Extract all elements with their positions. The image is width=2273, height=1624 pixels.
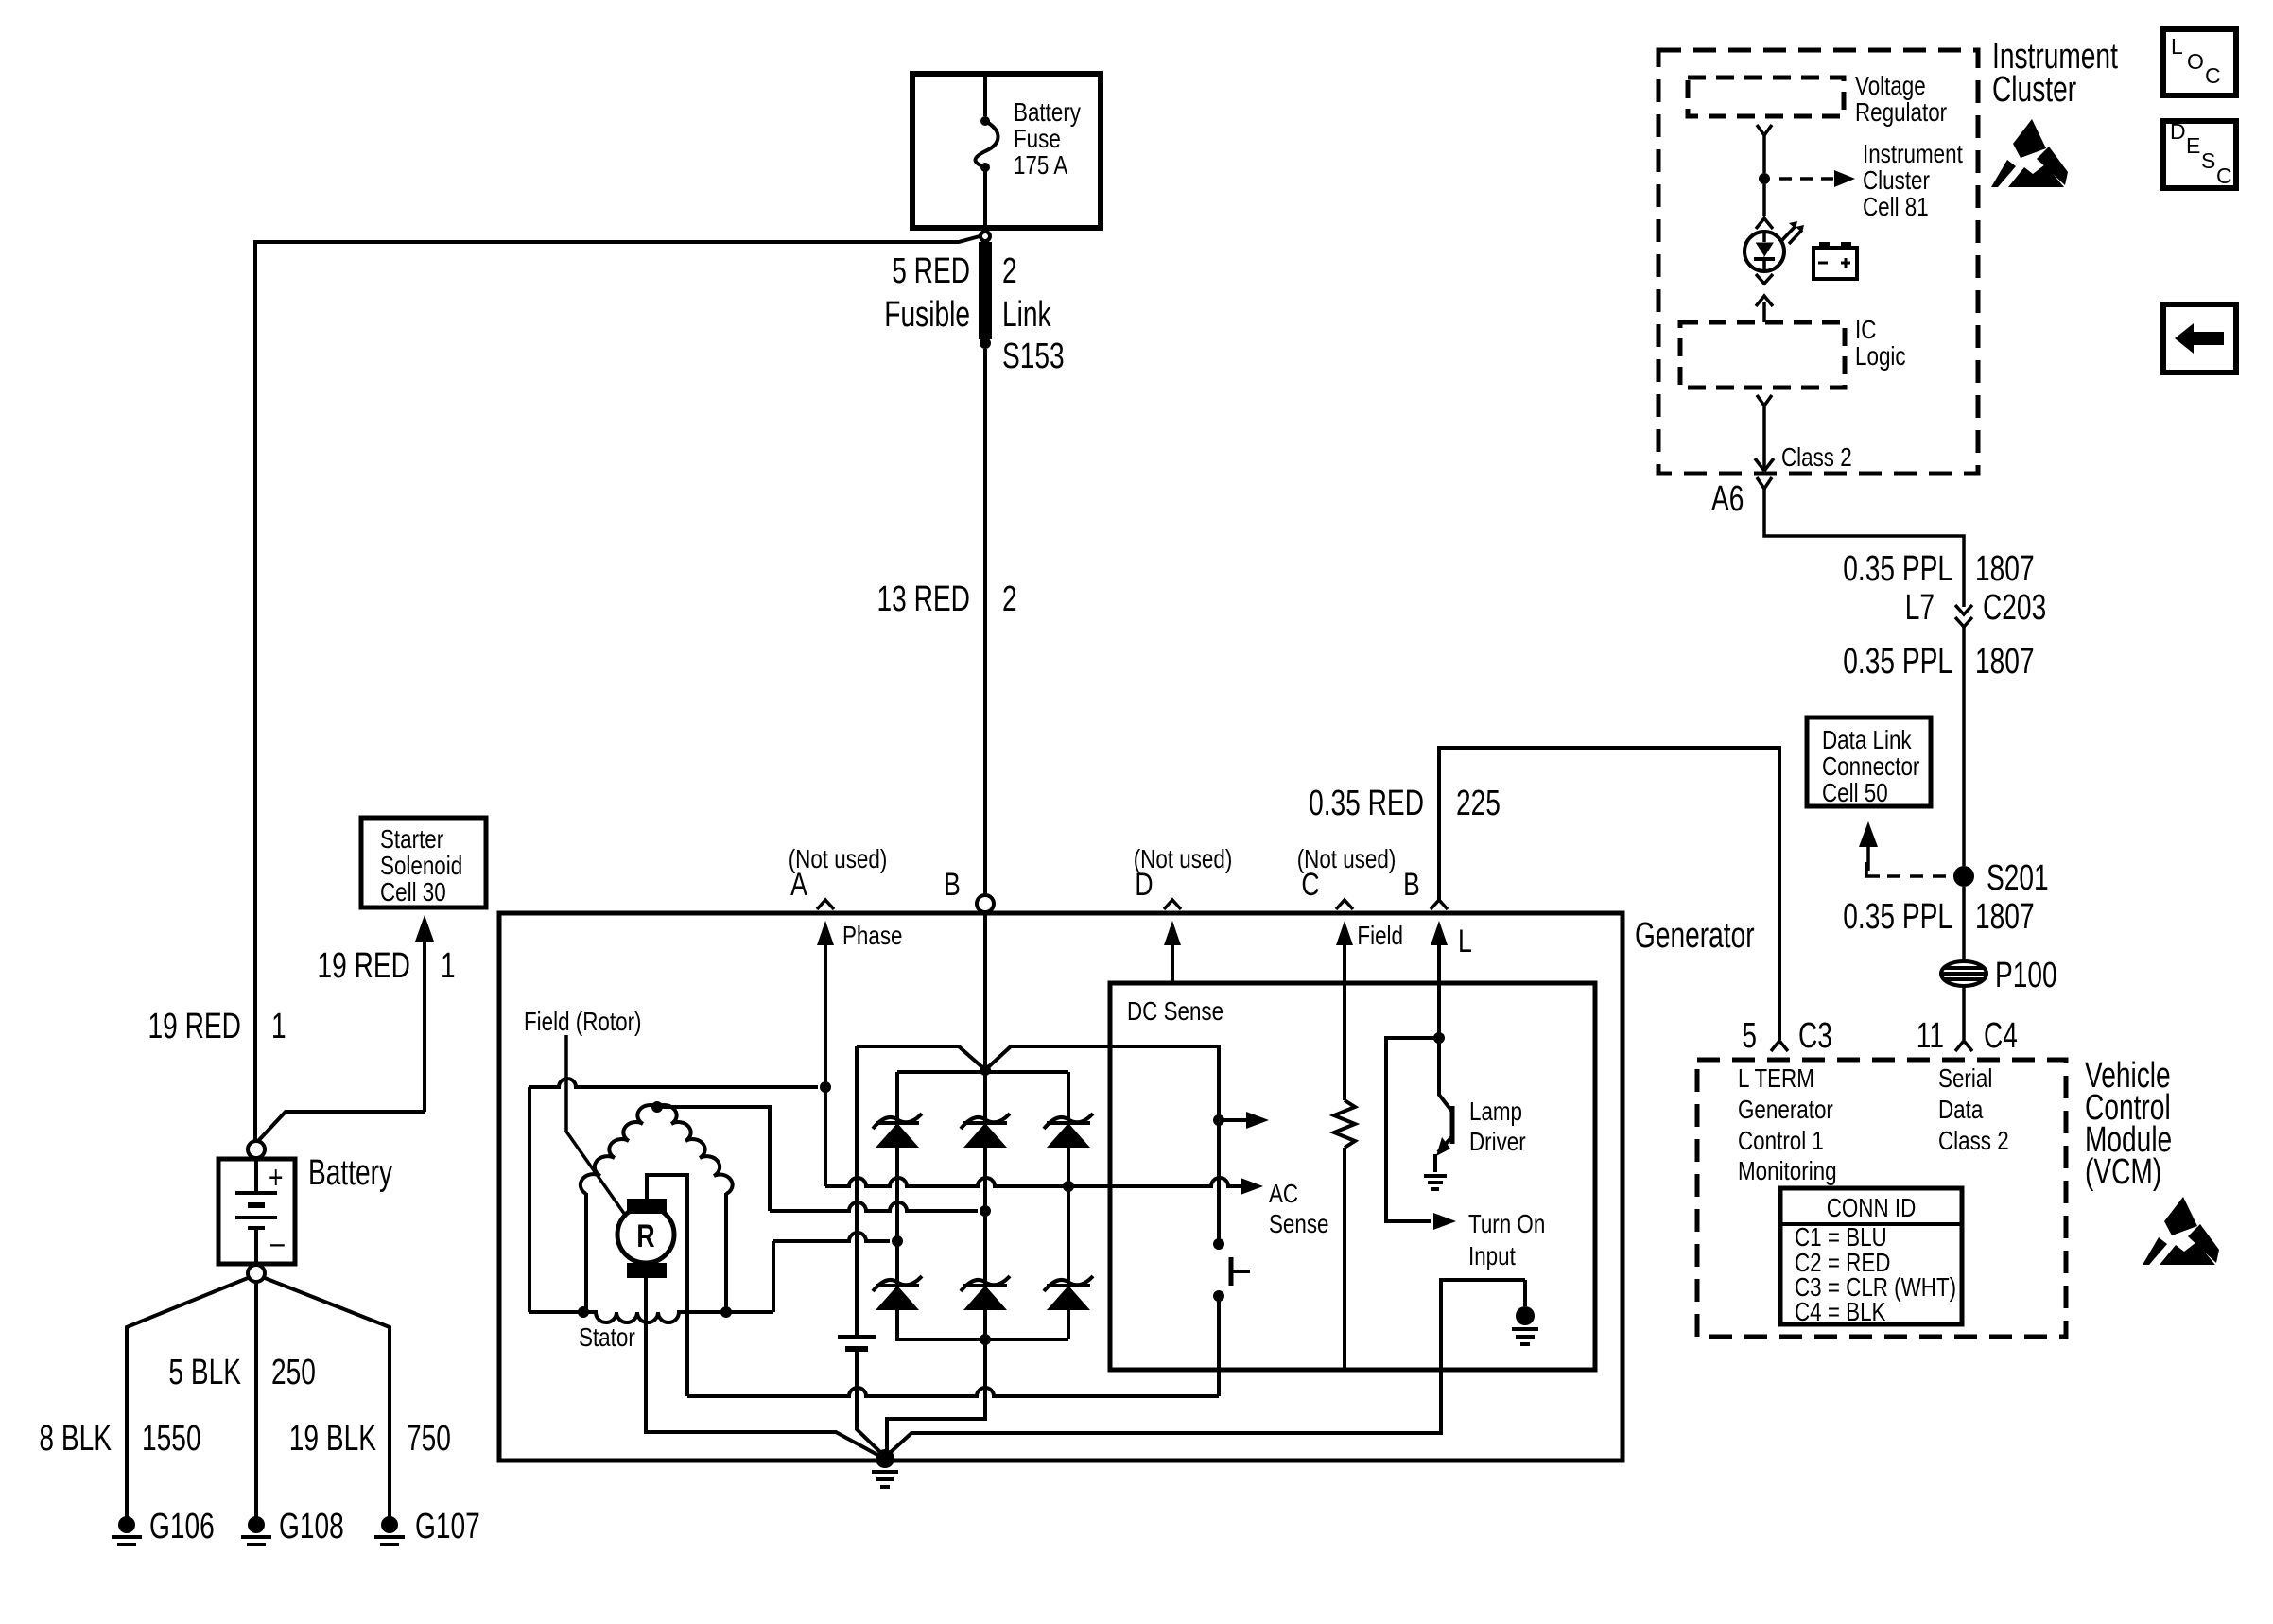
- svg-text:Lamp: Lamp: [1469, 1097, 1522, 1126]
- svg-text:(VCM): (VCM): [2085, 1152, 2161, 1192]
- svg-text:Field (Rotor): Field (Rotor): [524, 1007, 642, 1036]
- svg-text:Field: Field: [1357, 921, 1403, 950]
- svg-text:19 BLK: 19 BLK: [289, 1419, 376, 1459]
- svg-text:175 A: 175 A: [1014, 150, 1068, 180]
- svg-text:Fuse: Fuse: [1014, 124, 1061, 153]
- svg-text:Control 1: Control 1: [1738, 1126, 1824, 1155]
- svg-text:Battery: Battery: [1014, 97, 1081, 127]
- svg-text:G106: G106: [149, 1507, 215, 1546]
- svg-text:0.35 PPL: 0.35 PPL: [1843, 897, 1952, 937]
- svg-text:B: B: [944, 867, 961, 903]
- svg-text:19 RED: 19 RED: [148, 1007, 242, 1046]
- svg-text:8 BLK: 8 BLK: [39, 1419, 112, 1459]
- svg-text:C4: C4: [1984, 1016, 2018, 1056]
- svg-text:IC: IC: [1855, 315, 1876, 344]
- svg-text:225: 225: [1456, 784, 1501, 823]
- svg-text:Data: Data: [1938, 1095, 1984, 1124]
- svg-text:Data Link: Data Link: [1822, 725, 1912, 754]
- svg-text:750: 750: [407, 1419, 451, 1459]
- svg-text:S: S: [2201, 148, 2215, 173]
- svg-text:Starter: Starter: [380, 824, 443, 854]
- svg-text:0.35 PPL: 0.35 PPL: [1843, 642, 1952, 682]
- svg-text:+: +: [269, 1160, 284, 1196]
- svg-text:Cluster: Cluster: [1992, 70, 2076, 110]
- svg-text:Fusible: Fusible: [884, 295, 970, 335]
- svg-text:DC Sense: DC Sense: [1127, 996, 1223, 1026]
- svg-text:Solenoid: Solenoid: [380, 851, 462, 880]
- svg-text:–: –: [270, 1225, 285, 1261]
- svg-text:1: 1: [271, 1007, 286, 1046]
- svg-text:19 RED: 19 RED: [318, 946, 411, 986]
- svg-text:1807: 1807: [1975, 642, 2035, 682]
- svg-text:Regulator: Regulator: [1855, 97, 1947, 127]
- svg-text:R: R: [636, 1218, 654, 1254]
- svg-text:0.35 RED: 0.35 RED: [1309, 784, 1424, 823]
- svg-text:Sense: Sense: [1269, 1209, 1329, 1238]
- svg-text:5 BLK: 5 BLK: [168, 1353, 241, 1392]
- svg-text:0.35 PPL: 0.35 PPL: [1843, 549, 1952, 589]
- svg-text:O: O: [2187, 49, 2204, 74]
- svg-text:5: 5: [1742, 1016, 1757, 1056]
- svg-text:L7: L7: [1905, 588, 1935, 628]
- svg-text:Generator: Generator: [1738, 1095, 1833, 1124]
- svg-text:D: D: [2170, 119, 2186, 144]
- svg-text:C4 = BLK: C4 = BLK: [1795, 1297, 1886, 1326]
- svg-text:Phase: Phase: [842, 921, 903, 950]
- svg-text:Monitoring: Monitoring: [1738, 1156, 1837, 1185]
- svg-text:Voltage: Voltage: [1855, 71, 1926, 100]
- svg-text:A6: A6: [1711, 479, 1744, 519]
- svg-text:1807: 1807: [1975, 897, 2035, 937]
- svg-text:S201: S201: [1987, 858, 2049, 898]
- svg-text:Turn On: Turn On: [1468, 1209, 1545, 1238]
- svg-text:1: 1: [441, 946, 456, 986]
- svg-text:Battery: Battery: [308, 1153, 392, 1193]
- svg-text:C3: C3: [1798, 1016, 1832, 1056]
- svg-text:P100: P100: [1995, 956, 2057, 995]
- svg-text:E: E: [2186, 133, 2200, 158]
- svg-text:L: L: [2171, 34, 2183, 59]
- svg-text:1550: 1550: [142, 1419, 201, 1459]
- svg-text:B: B: [1403, 867, 1420, 903]
- svg-text:C203: C203: [1983, 588, 2046, 628]
- svg-text:Cell 81: Cell 81: [1863, 192, 1929, 221]
- svg-text:A: A: [790, 867, 807, 903]
- svg-text:Connector: Connector: [1822, 752, 1919, 781]
- svg-text:Logic: Logic: [1855, 341, 1906, 371]
- svg-text:Class 2: Class 2: [1781, 442, 1852, 472]
- svg-text:AC: AC: [1269, 1179, 1298, 1208]
- svg-text:11: 11: [1917, 1016, 1944, 1056]
- svg-text:250: 250: [271, 1353, 316, 1392]
- svg-text:5 RED: 5 RED: [892, 251, 970, 291]
- svg-text:Cell 30: Cell 30: [380, 877, 446, 907]
- svg-text:Stator: Stator: [579, 1322, 635, 1352]
- svg-text:Generator: Generator: [1635, 916, 1755, 956]
- svg-text:Link: Link: [1002, 295, 1051, 335]
- svg-text:CONN ID: CONN ID: [1827, 1193, 1917, 1222]
- svg-text:Input: Input: [1468, 1241, 1516, 1270]
- svg-text:1807: 1807: [1975, 549, 2035, 589]
- svg-text:Instrument: Instrument: [1863, 139, 1963, 168]
- svg-text:Serial: Serial: [1938, 1063, 1992, 1093]
- svg-text:Cell 50: Cell 50: [1822, 778, 1888, 807]
- svg-text:2: 2: [1002, 579, 1017, 619]
- svg-text:Cluster: Cluster: [1863, 165, 1930, 195]
- svg-text:Class 2: Class 2: [1938, 1126, 2009, 1155]
- svg-text:L: L: [1458, 924, 1472, 959]
- svg-text:13 RED: 13 RED: [877, 579, 971, 619]
- svg-text:C: C: [2205, 63, 2221, 88]
- svg-text:C: C: [1301, 867, 1319, 903]
- svg-text:C: C: [2216, 164, 2232, 188]
- svg-text:L TERM: L TERM: [1738, 1063, 1814, 1093]
- svg-text:2: 2: [1002, 251, 1017, 291]
- svg-text:Driver: Driver: [1469, 1127, 1526, 1156]
- svg-text:D: D: [1135, 867, 1153, 903]
- svg-text:S153: S153: [1002, 337, 1065, 376]
- svg-text:G107: G107: [415, 1507, 480, 1546]
- svg-text:G108: G108: [279, 1507, 344, 1546]
